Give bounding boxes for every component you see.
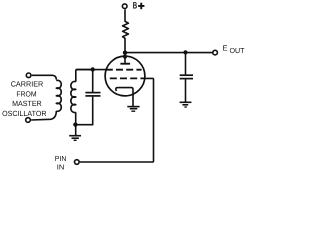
svg-text:FROM: FROM — [16, 89, 36, 98]
svg-text:OUT: OUT — [230, 46, 246, 55]
svg-text:MASTER: MASTER — [12, 99, 42, 108]
svg-text:OSCILLATOR: OSCILLATOR — [2, 109, 47, 118]
svg-text:B: B — [133, 1, 138, 11]
svg-text:IN: IN — [57, 163, 65, 172]
svg-text:CARRIER: CARRIER — [11, 80, 44, 89]
svg-text:E: E — [223, 43, 228, 52]
